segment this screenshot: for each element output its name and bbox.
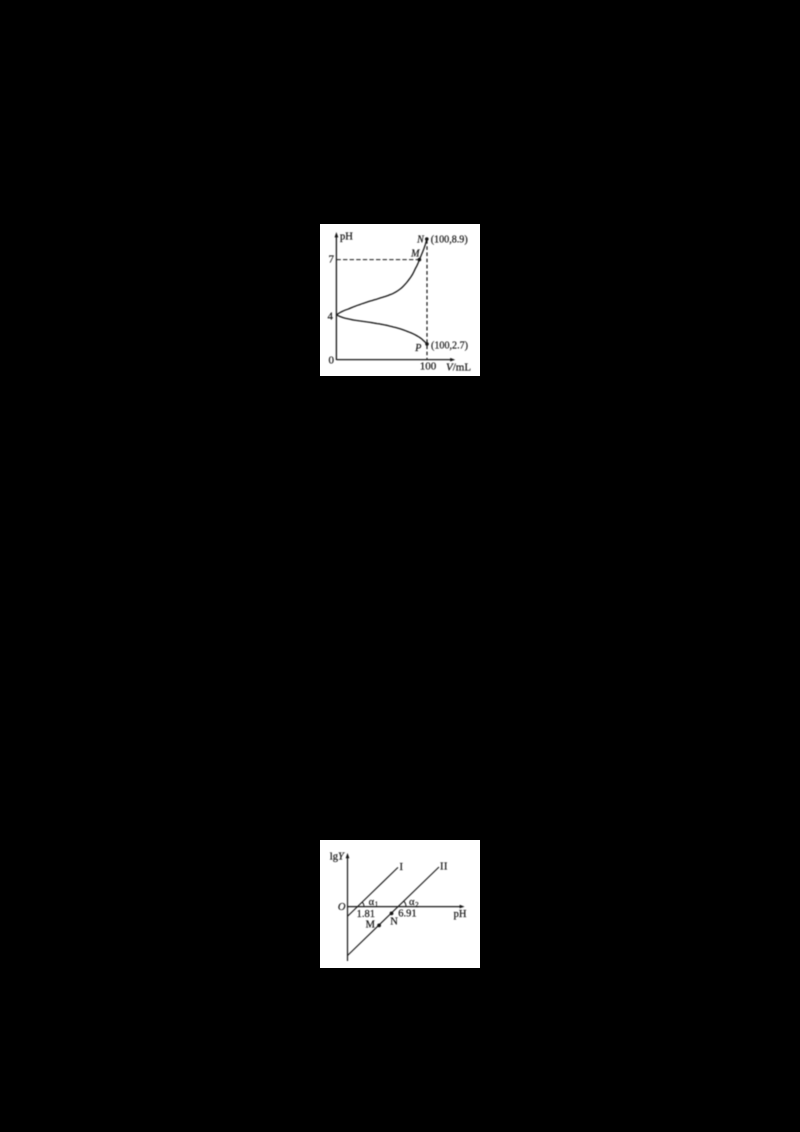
svg-text:lgY: lgY — [330, 852, 345, 863]
svg-text:O: O — [338, 902, 346, 913]
svg-text:P: P — [414, 343, 421, 354]
svg-text:pH: pH — [340, 231, 353, 242]
svg-text:I: I — [444, 861, 448, 872]
svg-text:V/mL: V/mL — [446, 361, 471, 373]
svg-text:pH: pH — [454, 909, 467, 920]
svg-text:N: N — [416, 235, 425, 246]
svg-text:M: M — [366, 920, 376, 931]
svg-text:4: 4 — [328, 311, 334, 323]
svg-text:(100,2.7): (100,2.7) — [431, 341, 468, 352]
svg-text:α1: α1 — [369, 897, 379, 909]
svg-text:I: I — [400, 862, 404, 873]
svg-text:N: N — [390, 916, 398, 927]
svg-text:M: M — [410, 249, 420, 260]
svg-text:100: 100 — [420, 360, 437, 372]
svg-text:1.81: 1.81 — [357, 909, 375, 920]
svg-text:α2: α2 — [409, 897, 419, 909]
svg-text:(100,8.9): (100,8.9) — [431, 234, 468, 245]
svg-text:7: 7 — [329, 254, 335, 266]
svg-text:0: 0 — [329, 355, 335, 367]
svg-text:6.91: 6.91 — [398, 909, 416, 920]
